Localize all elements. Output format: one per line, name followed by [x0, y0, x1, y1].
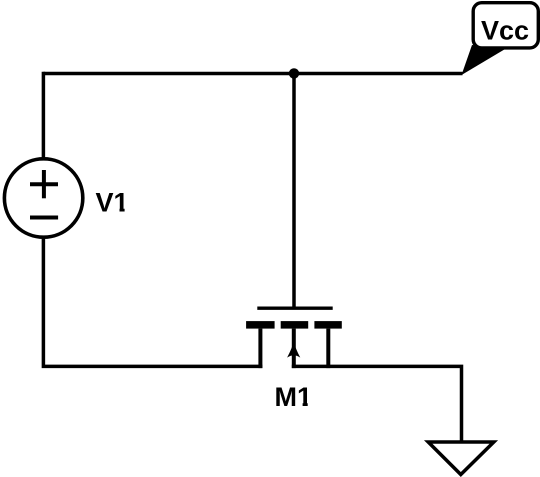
- wire top rail from V1 to Vcc flag: [43, 72, 462, 76]
- label V1: [96, 188, 130, 218]
- net flag Vcc: [462, 3, 539, 75]
- label M1: [275, 382, 313, 412]
- wire gate vertical from junction to M1 gate: [292, 74, 296, 309]
- svg-text:M1: M1: [275, 382, 313, 412]
- ground: [428, 442, 494, 475]
- svg-text:V1: V1: [96, 188, 129, 218]
- svg-text:Vcc: Vcc: [481, 16, 529, 46]
- voltage source V1: [4, 159, 82, 237]
- label Vcc: [481, 16, 529, 46]
- wire M1 bulk to bottom-right rail to ground: [292, 366, 462, 443]
- wire V1 bottom to bottom-left rail to M1 source: [43, 236, 262, 366]
- node junction dot: [289, 68, 299, 78]
- wire left vertical from top rail to V1 top: [42, 72, 46, 160]
- transistor M1: [246, 308, 342, 368]
